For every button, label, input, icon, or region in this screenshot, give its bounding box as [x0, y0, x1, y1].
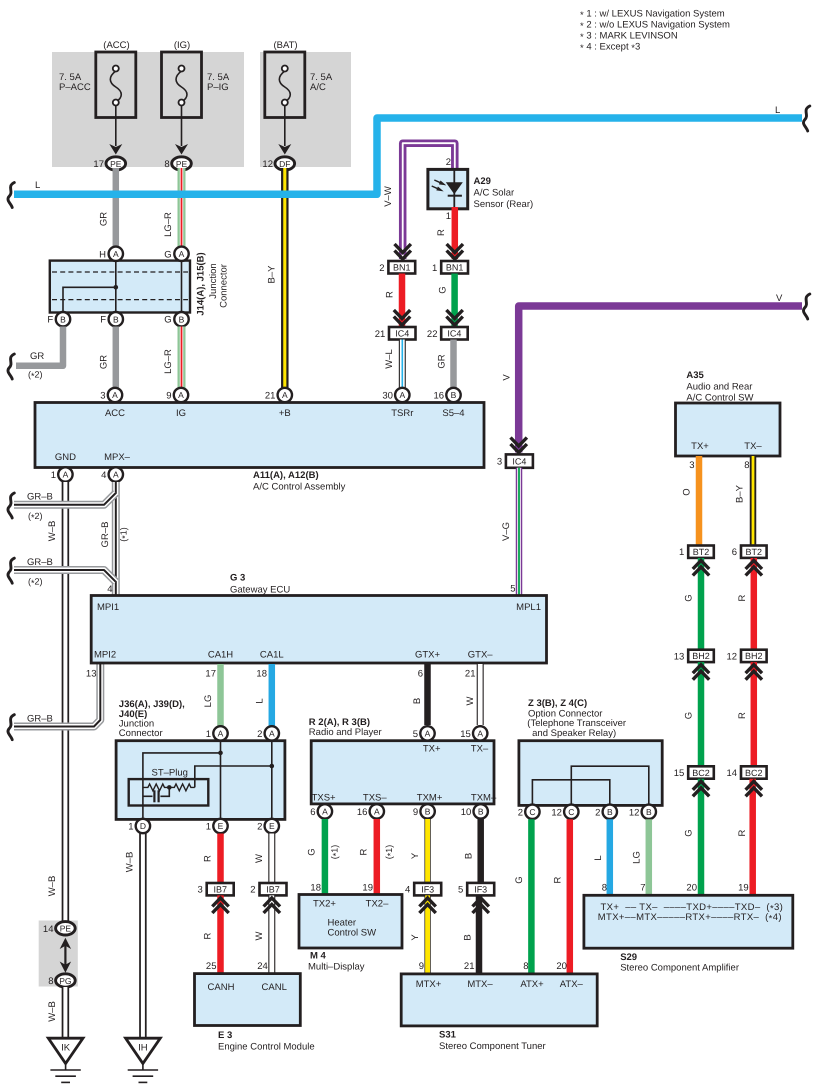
fuse block background right	[260, 52, 351, 167]
internal wire 1A-1E	[220, 741, 222, 819]
svg-text:O: O	[682, 488, 693, 495]
svg-text:7: 7	[640, 883, 645, 894]
svg-text:A: A	[63, 470, 69, 480]
svg-text:TX2–: TX2–	[366, 899, 389, 910]
terminal 12 DF	[275, 157, 295, 170]
svg-text:IB7: IB7	[266, 885, 280, 895]
chevron into IC4 21	[394, 310, 410, 319]
wire O A35 TX+ to BT2	[696, 456, 703, 546]
capacitor	[143, 795, 153, 797]
SECTION: radio	[299, 717, 497, 974]
svg-text:12: 12	[262, 159, 273, 170]
ground IK	[48, 1038, 83, 1082]
wire G BC2 to S29	[698, 779, 705, 896]
svg-text:Y: Y	[410, 852, 421, 859]
svg-text:G: G	[164, 315, 171, 326]
svg-text:(*2): (*2)	[28, 370, 43, 381]
svg-text:GND: GND	[55, 452, 76, 463]
svg-text:CA1H: CA1H	[208, 650, 233, 661]
connector 13 BH2	[688, 650, 714, 662]
svg-text:B: B	[412, 698, 423, 704]
pin 16 B S5-4	[446, 388, 460, 402]
svg-text:19: 19	[362, 883, 373, 894]
pin 2 B	[603, 805, 617, 819]
svg-text:B–Y: B–Y	[735, 484, 746, 503]
svg-text:TXS–: TXS–	[363, 793, 387, 804]
wire V-G IC4 to gateway pin 5	[516, 468, 523, 597]
pin F B mid	[109, 312, 123, 326]
svg-text:R: R	[203, 855, 214, 862]
svg-text:3: 3	[100, 391, 105, 402]
svg-text:D: D	[140, 821, 146, 831]
svg-text:BT2: BT2	[746, 547, 763, 557]
svg-text:IC4: IC4	[447, 329, 461, 339]
svg-text:2: 2	[257, 822, 262, 833]
wire L Z2B to S29	[607, 819, 614, 896]
terminal 8 PE	[172, 157, 192, 170]
wire B-Y fuse12 to pin 21	[281, 168, 289, 389]
svg-text:IC4: IC4	[512, 457, 526, 467]
svg-text:MPL1: MPL1	[516, 602, 541, 613]
svg-text:B: B	[464, 853, 475, 859]
svg-text:Multi–Display: Multi–Display	[308, 962, 365, 973]
svg-text:CANL: CANL	[262, 982, 287, 993]
svg-text:GR: GR	[30, 351, 44, 362]
svg-text:Audio and Rear: Audio and Rear	[686, 382, 752, 393]
svg-text:A35: A35	[686, 370, 704, 381]
internal link 2C-2B	[532, 780, 609, 805]
svg-text:12: 12	[727, 651, 738, 662]
svg-text:IG: IG	[176, 408, 186, 419]
svg-text:8: 8	[164, 159, 169, 170]
svg-text:2: 2	[518, 807, 523, 818]
svg-text:1: 1	[432, 263, 437, 274]
pin 2 A top	[265, 726, 279, 740]
wire W-B GND to PE	[62, 482, 70, 922]
svg-text:C: C	[529, 807, 535, 817]
svg-text:2: 2	[379, 263, 384, 274]
connector 6 BT2	[741, 546, 767, 558]
svg-text:21: 21	[465, 669, 476, 680]
fuse block background left	[52, 52, 244, 167]
SECTION: junction J14	[8, 247, 230, 389]
svg-text:V–G: V–G	[501, 522, 512, 541]
Heater Control SW M 4	[299, 895, 402, 949]
svg-text:(*1): (*1)	[384, 845, 395, 860]
svg-text:BC2: BC2	[692, 768, 710, 778]
svg-text:R: R	[359, 848, 370, 855]
svg-text:A29: A29	[474, 176, 491, 187]
connector 2 IB7	[260, 883, 287, 895]
svg-text:G: G	[164, 249, 171, 260]
pin F B left	[56, 312, 70, 326]
svg-text:GR–B: GR–B	[100, 522, 111, 548]
pin 9 B	[420, 804, 434, 818]
svg-text:Stereo Component Amplifier: Stereo Component Amplifier	[620, 963, 739, 974]
wire fuse ACC to pin 17	[115, 106, 117, 147]
junction connector J14(A), J15(B)	[50, 261, 190, 313]
svg-text:4: 4	[405, 885, 410, 896]
svg-text:S29: S29	[620, 952, 637, 963]
svg-text:1: 1	[206, 822, 211, 833]
wire W-L IC4 to pin 30	[399, 340, 406, 389]
svg-text:6: 6	[418, 669, 423, 680]
pin G B	[174, 312, 188, 326]
internal node 1	[218, 751, 223, 756]
svg-text:Stereo Component Tuner: Stereo Component Tuner	[439, 1041, 546, 1052]
svg-text:L: L	[255, 698, 266, 703]
wire W-B J36 1D to IH ground	[139, 834, 147, 1040]
svg-text:18: 18	[310, 883, 321, 894]
chevron below IB7 3	[212, 898, 228, 907]
svg-text:Connector: Connector	[219, 264, 230, 308]
chevron below BC2 15	[693, 781, 709, 790]
svg-text:1: 1	[206, 729, 211, 740]
pin 30 A TSRr	[395, 388, 409, 402]
wire fuse IG to pin 8	[181, 106, 183, 147]
pin 9 A IG	[174, 388, 188, 402]
wire fuse BAT to pin 12	[284, 106, 286, 147]
svg-text:ACC: ACC	[105, 408, 125, 419]
svg-text:5: 5	[458, 885, 463, 896]
svg-text:MPX–: MPX–	[104, 452, 131, 463]
wire Y IF3 to S31 MTX+	[424, 895, 430, 974]
svg-text:2: 2	[446, 157, 451, 168]
SECTION: gateway	[86, 573, 547, 727]
wire L CA1L to J36 2A	[269, 664, 276, 727]
svg-text:ST–Plug: ST–Plug	[152, 768, 188, 779]
wire R BN1 to IC4	[399, 274, 406, 328]
svg-text:F: F	[47, 315, 53, 326]
svg-text:GR–B: GR–B	[27, 557, 53, 568]
svg-text:A: A	[112, 390, 118, 400]
svg-text:B: B	[463, 934, 474, 940]
svg-text:TX2+: TX2+	[313, 899, 336, 910]
terminal 17 PE	[106, 157, 126, 170]
svg-text:BT2: BT2	[693, 547, 710, 557]
svg-text:TX–: TX–	[471, 744, 489, 755]
junction connector J36(A), J39(D), J40(E)	[116, 741, 285, 820]
svg-text:20: 20	[686, 883, 697, 894]
svg-text:P–ACC: P–ACC	[59, 82, 91, 93]
connector 3 IB7	[207, 883, 234, 895]
wire R BT2 to BH2	[751, 558, 758, 650]
svg-text:16: 16	[434, 391, 445, 402]
chevron below BH2 12	[746, 665, 762, 674]
svg-text:A: A	[179, 249, 185, 259]
wire L main cyan	[14, 118, 802, 194]
svg-text:3: 3	[689, 460, 694, 471]
svg-text:TX+: TX+	[423, 744, 441, 755]
svg-text:TXM+: TXM+	[417, 793, 443, 804]
svg-text:Y: Y	[410, 934, 421, 941]
pin H A	[109, 247, 123, 261]
svg-text:Sensor (Rear): Sensor (Rear)	[474, 199, 534, 210]
wire R radio to M4 (*1)	[374, 819, 381, 895]
SECTION: right column	[584, 370, 793, 974]
wire GR-B stub 2 (*2)	[14, 570, 116, 582]
svg-text:IF3: IF3	[474, 885, 487, 895]
svg-text:15: 15	[674, 768, 685, 779]
chevron below IF3 5	[473, 898, 489, 907]
svg-text:and Speaker Relay): and Speaker Relay)	[530, 728, 617, 739]
svg-text:PE: PE	[176, 159, 188, 169]
svg-text:W–L: W–L	[384, 349, 395, 369]
svg-text:BN1: BN1	[446, 263, 464, 273]
wire GR-B gateway MPI2 stub 3	[14, 664, 100, 727]
svg-text:ATX–: ATX–	[560, 979, 584, 990]
svg-text:W: W	[465, 696, 476, 705]
svg-text:GR–B: GR–B	[27, 492, 53, 503]
break symbol right V	[803, 294, 809, 319]
svg-text:(IG): (IG)	[174, 40, 190, 51]
svg-text:J14(A), J15(B): J14(A), J15(B)	[196, 252, 207, 315]
wire GR IC4 to pin 16	[450, 340, 457, 389]
svg-text:L: L	[593, 855, 604, 860]
chevron below IF3 4	[419, 898, 435, 907]
svg-text:W: W	[254, 854, 265, 863]
svg-text:TX–: TX–	[744, 441, 762, 452]
svg-text:6: 6	[310, 807, 315, 818]
svg-text:R: R	[737, 829, 748, 836]
resistor network	[143, 784, 169, 791]
svg-text:14: 14	[43, 924, 54, 935]
svg-text:4: 4	[101, 470, 106, 481]
wire W IB7 to E3 CANL	[268, 895, 275, 974]
svg-text:TXM–: TXM–	[471, 793, 497, 804]
svg-text:V: V	[502, 374, 513, 381]
svg-text:18: 18	[256, 669, 267, 680]
A/C Control Assembly A11(A), A12(B)	[35, 403, 484, 468]
svg-text:13: 13	[86, 669, 97, 680]
svg-text:5: 5	[413, 729, 418, 740]
wire B-Y A35 TX- to BT2	[750, 456, 757, 546]
svg-text:TX+: TX+	[691, 441, 709, 452]
svg-text:15: 15	[460, 729, 471, 740]
svg-text:A: A	[113, 470, 119, 480]
svg-text:20: 20	[556, 961, 567, 972]
connector 3 IC4	[506, 454, 533, 467]
wire R IB7 to E3 CANH	[217, 895, 224, 974]
svg-text:30: 30	[382, 391, 393, 402]
svg-text:Connector: Connector	[119, 728, 163, 739]
svg-text:A: A	[178, 390, 184, 400]
wire R 1E to IB7	[217, 834, 224, 884]
svg-text:DF: DF	[279, 159, 290, 169]
chevron into IC4 3	[511, 438, 527, 447]
fuse P-ACC 7.5A	[59, 40, 136, 118]
svg-text:LG–R: LG–R	[163, 349, 174, 374]
svg-text:9: 9	[413, 807, 418, 818]
svg-text:(*1): (*1)	[119, 527, 130, 542]
svg-text:V: V	[776, 293, 783, 304]
svg-text:L: L	[35, 180, 40, 191]
svg-text:2: 2	[595, 807, 600, 818]
wire B radio to IF3	[477, 819, 484, 883]
internal link 12C-12B	[571, 766, 649, 804]
chevron below BC2 14	[746, 781, 762, 790]
svg-text:R: R	[737, 712, 748, 719]
terminal 14 PE	[56, 922, 76, 935]
svg-text:B: B	[607, 807, 613, 817]
connector 4 IF3	[414, 883, 441, 896]
svg-text:21: 21	[464, 961, 475, 972]
svg-text:TSRr: TSRr	[391, 408, 413, 419]
svg-text:12: 12	[629, 807, 640, 818]
connector 14 BC2	[741, 766, 767, 778]
Stereo Component Tuner S31	[401, 974, 597, 1026]
break symbol left L	[8, 183, 14, 208]
svg-text:13: 13	[674, 651, 685, 662]
svg-text:GTX+: GTX+	[415, 650, 441, 661]
svg-text:P–IG: P–IG	[207, 82, 229, 93]
svg-text:A: A	[282, 390, 288, 400]
svg-text:PE: PE	[110, 159, 122, 169]
SECTION: ac assembly	[35, 388, 484, 493]
SECTION: bottom	[401, 698, 662, 1052]
wire LG Z12B to S29	[646, 819, 653, 896]
svg-text:B: B	[425, 807, 431, 817]
svg-text:B: B	[451, 390, 457, 400]
svg-text:W–B: W–B	[47, 1001, 58, 1022]
svg-text:8: 8	[48, 976, 53, 987]
pin 5 A	[420, 726, 434, 740]
wire LG-R fuse8 to junction G	[178, 168, 186, 248]
svg-text:LG–R: LG–R	[163, 212, 174, 237]
svg-text:GR: GR	[99, 355, 110, 369]
wire V purple right	[519, 306, 802, 453]
chevron below IB7 2	[264, 898, 280, 907]
svg-text:PE: PE	[60, 924, 72, 934]
svg-text:Radio and Player: Radio and Player	[309, 727, 382, 738]
svg-text:IK: IK	[61, 1043, 71, 1054]
svg-text:PG: PG	[59, 976, 71, 986]
svg-text:19: 19	[738, 883, 749, 894]
Gateway ECU G 3	[91, 596, 546, 664]
wire B GTX+ to radio 5A	[424, 664, 431, 725]
svg-text:IC4: IC4	[395, 329, 409, 339]
svg-text:4: 4	[107, 584, 112, 595]
wire GR fuse17 to junction H	[113, 168, 120, 248]
svg-text:8: 8	[523, 961, 528, 972]
connector 1 BT2	[688, 546, 714, 558]
connector 2 BN1	[388, 261, 415, 274]
svg-text:CANH: CANH	[208, 982, 235, 993]
internal node 2	[270, 764, 275, 769]
svg-text:3: 3	[198, 885, 203, 896]
svg-text:14: 14	[727, 768, 738, 779]
wire GR-B stub 1 (*2)	[14, 493, 116, 505]
svg-text:BH2: BH2	[692, 651, 710, 661]
Stereo Component Amplifier S29	[584, 895, 793, 948]
ground IH	[126, 1038, 161, 1082]
svg-text:W–B: W–B	[125, 852, 136, 873]
SECTION: left column	[8, 482, 160, 1082]
SECTION: header notes	[580, 9, 730, 55]
connector 15 BC2	[688, 766, 714, 778]
pin 15 A	[473, 726, 487, 740]
pin 12 C	[564, 805, 578, 819]
SECTION: fuses	[52, 40, 351, 170]
svg-text:Control SW: Control SW	[328, 928, 377, 939]
svg-text:B: B	[179, 314, 185, 324]
svg-text:G: G	[684, 712, 695, 719]
svg-text:E 3: E 3	[218, 1030, 232, 1041]
svg-text:A/C: A/C	[310, 82, 326, 93]
wire R A29 pin1	[452, 207, 459, 259]
pin G A	[174, 247, 188, 261]
svg-text:A/C Solar: A/C Solar	[474, 188, 515, 199]
svg-text:B: B	[478, 807, 484, 817]
svg-text:(*2): (*2)	[28, 511, 43, 522]
fuse A/C 7.5A	[265, 40, 333, 118]
svg-text:M 4: M 4	[310, 951, 327, 962]
svg-text:(*2): (*2)	[28, 577, 43, 588]
svg-text:17: 17	[205, 669, 216, 680]
svg-text:A: A	[218, 729, 224, 739]
wire V-W purple loop	[403, 143, 455, 259]
svg-text:(ACC): (ACC)	[103, 40, 129, 51]
A29 A/C Solar Sensor (Rear)	[428, 169, 468, 208]
svg-text:IF3: IF3	[421, 885, 434, 895]
wire W GTX- to radio 15A	[477, 664, 484, 725]
svg-text:21: 21	[265, 391, 276, 402]
svg-text:6: 6	[732, 547, 737, 558]
internal wire H2/V4	[195, 766, 272, 787]
svg-text:5: 5	[510, 584, 515, 595]
svg-text:3: 3	[497, 457, 502, 468]
svg-text:1: 1	[446, 211, 451, 222]
svg-text:G: G	[684, 829, 695, 836]
svg-text:GTX–: GTX–	[468, 650, 494, 661]
terminal 8 PG	[56, 974, 76, 987]
svg-text:1: 1	[128, 822, 133, 833]
svg-text:G: G	[438, 286, 449, 293]
wire GR junction to ACC	[113, 327, 120, 389]
svg-text:A11(A), A12(B): A11(A), A12(B)	[253, 470, 319, 481]
SECTION: main wires top	[8, 105, 810, 597]
wire R BH2 to BC2	[751, 662, 758, 766]
svg-text:G 3: G 3	[230, 573, 245, 584]
wire Y radio to IF3	[424, 819, 430, 883]
arrows between PE and PG	[64, 943, 66, 967]
chevron into BN1 1	[447, 244, 463, 253]
wire R Z12C to S31 ATX-	[567, 819, 574, 974]
wire R BC2 to S29	[749, 779, 756, 896]
svg-text:GR: GR	[99, 212, 110, 226]
wire LG-R junction to IG	[178, 327, 186, 389]
svg-text:R: R	[553, 876, 564, 883]
pin 12 B	[642, 805, 656, 819]
svg-text:Gateway ECU: Gateway ECU	[230, 585, 290, 596]
svg-text:17: 17	[93, 159, 104, 170]
terminal block PE/PG gray	[39, 921, 78, 987]
connector 1 BN1	[441, 261, 468, 274]
svg-text:MTX+––MTX–––––RTX+––––RTX– (*: MTX+––MTX–––––RTX+––––RTX– (*4)	[598, 912, 782, 924]
wire B IF3 to S31 MTX-	[476, 895, 483, 974]
svg-text:G: G	[684, 594, 695, 601]
connector 12 BH2	[741, 650, 767, 662]
svg-text:LG: LG	[632, 851, 643, 864]
Audio and Rear A/C Control SW A35	[676, 403, 781, 456]
svg-text:2: 2	[250, 885, 255, 896]
svg-text:E: E	[218, 821, 224, 831]
chevron below BH2 13	[693, 665, 709, 674]
svg-text:BC2: BC2	[745, 768, 763, 778]
svg-text:TXS+: TXS+	[312, 793, 336, 804]
wire LG CA1H to J36 1A	[217, 664, 224, 727]
wire G BT2 to BH2	[698, 558, 705, 650]
